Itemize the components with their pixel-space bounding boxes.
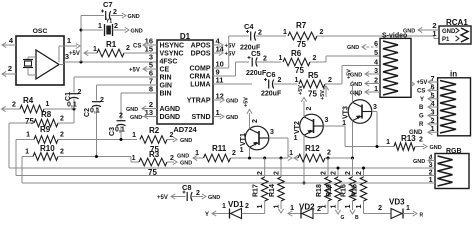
svg-text:GND: GND (130, 115, 142, 121)
svg-text:1: 1 (240, 147, 244, 154)
svg-text:2: 2 (196, 190, 200, 197)
svg-text:1: 1 (93, 46, 97, 53)
svg-text:2: 2 (60, 132, 64, 139)
svg-text:4: 4 (374, 60, 378, 67)
svg-text:AGND: AGND (160, 106, 181, 113)
svg-text:2: 2 (232, 150, 236, 157)
svg-text:2: 2 (257, 171, 264, 175)
svg-text:HSYNC: HSYNC (160, 43, 185, 50)
svg-text:2: 2 (419, 137, 423, 144)
svg-text:R13: R13 (401, 134, 416, 143)
svg-text:2: 2 (60, 149, 64, 156)
svg-text:R: R (420, 213, 424, 219)
svg-text:220uF: 220uF (246, 70, 267, 77)
svg-text:5: 5 (374, 50, 378, 57)
svg-text:R17: R17 (253, 184, 260, 197)
svg-text:R4: R4 (23, 96, 34, 105)
svg-text:GND: GND (208, 195, 220, 201)
svg-text:2: 2 (170, 132, 174, 139)
svg-text:2: 2 (245, 203, 249, 210)
svg-text:1: 1 (342, 120, 346, 127)
svg-text:RIN: RIN (160, 75, 172, 82)
svg-text:C8: C8 (182, 183, 192, 192)
svg-text:B: B (419, 105, 424, 111)
svg-text:GND: GND (347, 45, 359, 51)
svg-text:CS: CS (133, 44, 141, 50)
svg-text:R16: R16 (341, 184, 348, 197)
svg-text:CRMA: CRMA (190, 74, 211, 81)
svg-text:Y1: Y1 (106, 19, 112, 25)
svg-text:R1: R1 (106, 40, 117, 49)
svg-text:GND: GND (180, 161, 192, 167)
svg-text:Y: Y (420, 97, 424, 103)
svg-text:1: 1 (331, 205, 338, 209)
svg-text:R18: R18 (316, 184, 323, 197)
svg-text:BIN: BIN (160, 91, 172, 98)
svg-text:75: 75 (308, 90, 317, 99)
svg-text:0,1: 0,1 (90, 108, 100, 115)
svg-text:2: 2 (100, 97, 104, 104)
svg-text:CS: CS (417, 88, 425, 94)
svg-text:C6: C6 (266, 70, 276, 79)
svg-text:3: 3 (325, 117, 329, 124)
svg-text:+5V: +5V (298, 85, 304, 95)
svg-text:R9: R9 (40, 125, 51, 134)
svg-text:+5V: +5V (225, 44, 236, 50)
svg-text:+5V: +5V (157, 195, 168, 201)
svg-text:2: 2 (306, 107, 313, 111)
svg-text:2: 2 (114, 23, 118, 30)
svg-text:CE: CE (160, 67, 170, 74)
svg-text:1: 1 (98, 23, 102, 30)
svg-text:VT2: VT2 (294, 121, 301, 134)
svg-text:+5V: +5V (417, 80, 428, 86)
svg-text:+5V: +5V (69, 51, 80, 57)
svg-text:VD1: VD1 (228, 200, 244, 209)
svg-text:1: 1 (222, 203, 226, 210)
svg-text:2: 2 (355, 92, 362, 96)
svg-text:2: 2 (278, 77, 282, 84)
svg-text:2: 2 (331, 171, 338, 175)
svg-text:C1: C1 (65, 92, 72, 101)
svg-text:2: 2 (119, 113, 123, 120)
svg-text:R5: R5 (308, 71, 319, 80)
svg-text:3: 3 (270, 129, 274, 136)
svg-text:1: 1 (195, 150, 199, 157)
svg-text:0,1: 0,1 (115, 127, 125, 134)
svg-text:75: 75 (295, 66, 304, 75)
svg-text:DPOS: DPOS (191, 51, 211, 58)
svg-text:STND: STND (191, 114, 210, 121)
svg-text:APOS: APOS (191, 43, 211, 50)
svg-text:+5V: +5V (320, 90, 326, 100)
svg-text:OSC: OSC (33, 28, 48, 35)
svg-text:AD724: AD724 (173, 125, 197, 134)
svg-text:G: G (419, 114, 424, 120)
svg-text:2: 2 (328, 77, 332, 84)
svg-text:2: 2 (263, 56, 267, 63)
svg-text:1: 1 (132, 132, 136, 139)
svg-text:R6: R6 (291, 49, 302, 58)
svg-text:8: 8 (149, 85, 153, 94)
svg-text:YTRAP: YTRAP (187, 98, 211, 105)
svg-text:2: 2 (313, 55, 317, 62)
svg-text:1: 1 (345, 205, 352, 209)
svg-text:GND: GND (126, 107, 138, 113)
svg-text:1: 1 (67, 36, 71, 45)
svg-text:14: 14 (216, 45, 225, 54)
svg-text:1: 1 (46, 101, 50, 108)
svg-text:2: 2 (78, 89, 82, 96)
svg-text:R11: R11 (212, 144, 227, 153)
svg-text:1: 1 (274, 205, 281, 209)
svg-text:1: 1 (321, 205, 328, 209)
svg-text:1: 1 (216, 108, 220, 117)
svg-text:2: 2 (170, 155, 174, 162)
svg-text:R2: R2 (149, 126, 160, 135)
svg-text:B: B (355, 215, 359, 221)
svg-text:1: 1 (290, 205, 294, 212)
svg-text:2: 2 (321, 171, 328, 175)
svg-text:GND: GND (430, 145, 442, 151)
svg-text:R10: R10 (40, 144, 55, 153)
svg-text:1: 1 (25, 149, 29, 156)
svg-text:C5: C5 (251, 49, 261, 58)
svg-text:VT3: VT3 (343, 106, 350, 119)
svg-text:1: 1 (132, 155, 136, 162)
svg-text:2: 2 (320, 29, 324, 36)
svg-text:1: 1 (294, 135, 298, 142)
svg-text:R12: R12 (305, 144, 320, 153)
svg-text:G: G (341, 215, 345, 221)
svg-text:DGND: DGND (160, 114, 181, 121)
svg-text:2: 2 (60, 116, 64, 123)
svg-text:1: 1 (289, 150, 293, 157)
svg-text:VT1: VT1 (240, 133, 247, 146)
svg-text:2: 2 (8, 64, 12, 73)
svg-text:GND: GND (442, 29, 456, 35)
svg-text:1: 1 (356, 205, 363, 209)
svg-text:2: 2 (356, 171, 363, 175)
svg-text:+5V: +5V (225, 52, 236, 58)
svg-text:R7: R7 (296, 21, 307, 30)
svg-text:VSYNC: VSYNC (160, 51, 184, 58)
svg-text:2: 2 (317, 206, 321, 213)
svg-text:11: 11 (216, 76, 224, 85)
svg-text:2: 2 (12, 102, 16, 109)
svg-text:R15: R15 (352, 184, 359, 197)
svg-text:2: 2 (113, 9, 117, 16)
svg-text:R8: R8 (41, 110, 52, 119)
svg-text:1: 1 (257, 205, 264, 209)
svg-text:COMP: COMP (190, 66, 211, 73)
svg-text:C4: C4 (244, 22, 254, 31)
svg-text:P1: P1 (442, 37, 450, 43)
svg-text:1: 1 (406, 205, 410, 212)
svg-text:GND: GND (177, 154, 189, 160)
svg-text:1: 1 (295, 77, 299, 84)
svg-text:1: 1 (279, 55, 283, 62)
svg-text:+5V: +5V (129, 68, 140, 74)
svg-text:GND: GND (180, 138, 192, 144)
svg-text:0,1: 0,1 (67, 102, 77, 109)
svg-text:LUMA: LUMA (190, 82, 210, 89)
svg-text:VD3: VD3 (389, 198, 405, 207)
svg-text:GND: GND (226, 115, 238, 121)
svg-text:+5V: +5V (347, 69, 353, 79)
svg-text:75: 75 (297, 40, 306, 49)
svg-text:Y: Y (205, 212, 209, 218)
svg-text:GND: GND (413, 159, 425, 165)
svg-text:R14: R14 (269, 184, 276, 197)
svg-text:GIN: GIN (160, 83, 172, 90)
svg-text:2: 2 (126, 45, 130, 52)
svg-text:R: R (419, 122, 424, 128)
svg-text:R3: R3 (149, 150, 160, 159)
svg-text:2: 2 (252, 119, 259, 123)
svg-text:GND: GND (131, 29, 143, 35)
svg-text:2: 2 (274, 171, 281, 175)
svg-text:2: 2 (327, 150, 331, 157)
svg-text:1: 1 (386, 139, 390, 146)
svg-text:4FSC: 4FSC (160, 59, 178, 66)
svg-text:1: 1 (283, 29, 287, 36)
svg-text:1: 1 (26, 132, 30, 139)
svg-text:+5V: +5V (244, 97, 250, 107)
svg-text:3: 3 (373, 104, 377, 111)
svg-text:2: 2 (378, 205, 382, 212)
svg-text:2: 2 (345, 171, 352, 175)
svg-text:GND: GND (226, 99, 238, 105)
svg-text:R19: R19 (326, 184, 333, 197)
svg-text:220uF: 220uF (261, 91, 282, 98)
svg-text:GND: GND (128, 14, 140, 20)
svg-text:75: 75 (25, 117, 34, 126)
svg-text:C7: C7 (103, 0, 113, 9)
svg-text:2: 2 (258, 30, 262, 37)
